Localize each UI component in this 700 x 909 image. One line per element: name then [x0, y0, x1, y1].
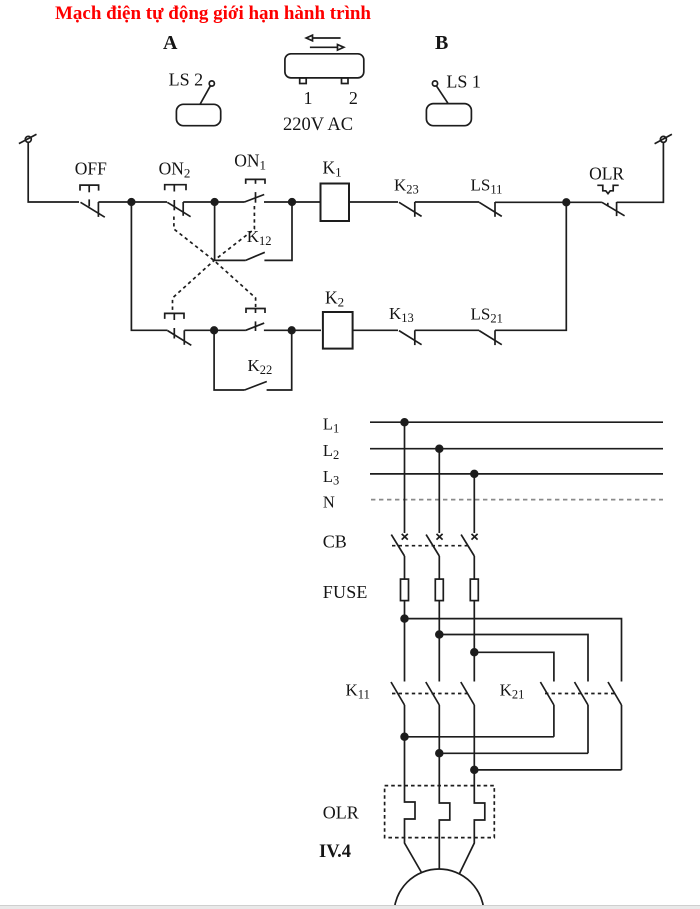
mech link ON2 to rung2 NO contact (dashed): [174, 217, 256, 308]
contact K12 blade (NO): [246, 252, 265, 260]
carriage foot terminal 1: [300, 78, 307, 84]
pushbutton OFF (NC) label: [75, 159, 107, 179]
wire fuse2 down to K11 pole2: [438, 601, 440, 682]
node L1 tap: [401, 419, 408, 426]
wire left rail down to rung2: [131, 202, 167, 330]
carriage foot terminal 2: [342, 78, 349, 84]
overload contact OLR label: [589, 163, 624, 183]
contactor K21 pole 3 blade: [608, 682, 622, 770]
fuse F1: [401, 579, 409, 601]
wire fuse3 down to K11 pole3: [473, 601, 475, 682]
breaker CB pole 3: [461, 534, 478, 579]
pushbutton ON1 cap: [246, 179, 265, 202]
contact K22 blade (NO): [245, 382, 267, 391]
pushbutton rung2 first contact blade: [168, 331, 192, 346]
svg-text:CB: CB: [323, 532, 347, 552]
left supply terminal: [19, 134, 37, 143]
phase line L2: [370, 448, 663, 450]
junction node rung1 far right: [563, 199, 570, 206]
limit switch LS1 roller: [432, 81, 437, 86]
neutral label N: [323, 493, 335, 512]
limit switch LS1 lever: [437, 86, 448, 103]
wire L3 tap down to CB: [473, 474, 475, 533]
svg-text:OLR: OLR: [323, 803, 359, 823]
svg-text:OLR: OLR: [589, 163, 624, 183]
overload OLR contact blade: [602, 202, 625, 216]
svg-text:ON2: ON2: [159, 159, 191, 181]
pushbutton OFF contact blade: [81, 202, 105, 217]
junction node rung1 left: [128, 199, 135, 206]
wire K12 up to rung1: [264, 202, 292, 260]
svg-text:K23: K23: [394, 176, 419, 197]
contact K13 NC terminal drop: [414, 330, 416, 345]
contact LS21 (NC) label: [471, 305, 503, 326]
overload heater element 3: [460, 770, 485, 874]
neutral line N (dashed): [371, 499, 663, 501]
fuse F2: [435, 579, 443, 601]
svg-text:K22: K22: [248, 356, 273, 377]
terminal label 2: [349, 88, 358, 108]
svg-text:K11: K11: [346, 681, 370, 702]
limit switch LS2 lever: [200, 86, 210, 104]
auxiliary contact K22 label: [248, 356, 273, 377]
wire node rung1 mid down to K12: [215, 202, 246, 260]
limit switch LS2 body: [176, 104, 220, 125]
limit switch LS1 body: [426, 104, 471, 126]
pushbutton ON2 cap: [165, 185, 186, 211]
svg-text:N: N: [323, 493, 335, 512]
breaker CB pole 2: [426, 534, 443, 579]
wire K1 to K23: [349, 201, 398, 203]
phase label L1: [323, 415, 339, 436]
svg-text:LS11: LS11: [471, 176, 503, 197]
svg-text:IV.4: IV.4: [319, 842, 351, 862]
wire LS11 to OLR (node at 566.3): [495, 201, 602, 203]
pushbutton ON2 NC terminal drop: [182, 202, 184, 216]
svg-text:2: 2: [349, 88, 358, 108]
svg-text:K1: K1: [323, 158, 342, 180]
pushbutton rung2 first NC terminal drop: [183, 330, 185, 345]
wire OFF to ON2 (node at 131): [98, 201, 167, 203]
pushbutton ON1 contact blade: [245, 195, 265, 203]
coil K2 label: [325, 288, 344, 310]
svg-text:1: 1: [304, 88, 313, 108]
svg-text:L3: L3: [323, 467, 339, 488]
phase label L2: [323, 441, 339, 462]
svg-text:OFF: OFF: [75, 159, 107, 179]
breaker CB pole 1: [391, 534, 408, 579]
contactor K21 linkage (dashed): [545, 693, 616, 695]
node L2 tap: [436, 445, 443, 452]
overload OLR NC terminal drop: [616, 202, 618, 216]
wire rung2 node left down to K22: [214, 330, 245, 390]
wire branch L2 to K21 pole2: [439, 635, 588, 682]
mech link ON1 to rung2 NC contact (dashed): [173, 206, 255, 312]
wire K22 up to rung2: [267, 330, 292, 390]
svg-text:K21: K21: [500, 681, 525, 702]
wire K23 to LS11: [415, 201, 479, 203]
pushbutton ON1 (NO) label: [234, 151, 266, 173]
contact LS21 blade: [479, 331, 502, 345]
wire rung2 to K2 coil (node at 291.7): [264, 329, 321, 331]
wire to rung2 node left: [184, 329, 245, 331]
phase label L3: [323, 467, 339, 488]
contact K13 (NC) label: [389, 304, 414, 325]
limit switch LS1 label: [446, 71, 481, 91]
contact LS11 blade: [479, 202, 502, 216]
wire branch L1 to K21 pole3: [405, 619, 622, 682]
contactor K11 label: [346, 681, 370, 702]
actuator travel arrow right: [310, 45, 344, 51]
node motor line3 join: [471, 767, 478, 774]
terminal label 1: [304, 88, 313, 108]
svg-text:LS 2: LS 2: [169, 70, 204, 90]
svg-text:A: A: [163, 32, 178, 54]
wire K21 pole1 bottom to line1: [405, 736, 554, 738]
coil K1 label: [323, 158, 342, 180]
wire OLR to right rail: [617, 142, 664, 202]
overload heater element 2: [439, 753, 450, 869]
node motor line1 join: [401, 733, 408, 740]
node fuse1 branch: [401, 615, 408, 622]
svg-text:K12: K12: [247, 227, 272, 248]
junction node rung1 right: [289, 199, 296, 206]
wire K21 pole2 bottom to line2: [439, 752, 588, 754]
wire fuse1 down to K11 pole1 (node, branch to K21 pole3): [404, 601, 406, 682]
svg-text:FUSE: FUSE: [323, 582, 368, 602]
wire branch L3 to K21 pole1: [474, 652, 554, 681]
figure label IV.4: [319, 842, 351, 862]
junction node rung1 mid: [211, 199, 218, 206]
wire K2 to K13: [353, 329, 398, 331]
junction node rung2 right: [288, 327, 295, 334]
overload relay OLR label: [323, 803, 359, 823]
junction node rung2 left: [211, 327, 218, 334]
actuator body (moving carriage): [285, 54, 364, 78]
breaker CB linkage (dashed): [392, 545, 470, 547]
overload OLR trip symbol: [597, 185, 618, 193]
pushbutton rung2 first (ON1 linked, NC) cap: [165, 313, 184, 338]
supply label 220V AC: [283, 115, 353, 135]
coil K1: [321, 184, 350, 222]
motor body circle: [394, 869, 484, 909]
wire K21 pole3 bottom to line3: [474, 769, 621, 771]
svg-text:LS 1: LS 1: [446, 71, 481, 91]
pushbutton OFF NC terminal drop: [97, 202, 99, 217]
wire LS21 to right vertical up to rung1: [495, 202, 566, 330]
svg-text:Mạch điện tự động giới hạn hàn: Mạch điện tự động giới hạn hành trình: [55, 3, 371, 24]
page bottom edge strip: [0, 905, 700, 909]
pushbutton rung2 second (ON2 linked, NO) cap: [246, 309, 265, 332]
actuator travel arrow left: [306, 35, 340, 41]
wire L2 tap down to CB: [438, 449, 440, 533]
overload heater element 1: [405, 737, 422, 873]
svg-text:K2: K2: [325, 288, 344, 310]
contactor K21 label: [500, 681, 525, 702]
svg-text:ON1: ON1: [234, 151, 266, 173]
contact K23 NC terminal drop: [414, 202, 416, 217]
limit switch LS2 label: [169, 70, 204, 90]
phase line L3: [370, 473, 663, 475]
pushbutton ON2 (NC) label: [159, 159, 191, 181]
node fuse2 branch: [436, 631, 443, 638]
contactor K11 pole 3 blade: [461, 682, 475, 770]
contact LS21 NC terminal drop: [494, 330, 496, 345]
contactor K11 pole 1 blade: [391, 682, 405, 737]
contact K23 blade: [399, 202, 422, 216]
fuse label FUSE: [323, 582, 368, 602]
contactor K11 pole 2 blade: [426, 682, 440, 753]
limit switch LS2 roller: [209, 81, 214, 86]
contactor K21 pole 2 blade: [575, 682, 589, 753]
svg-text:L1: L1: [323, 415, 339, 436]
node motor line2 join: [436, 750, 443, 757]
pushbutton OFF cap: [80, 185, 99, 206]
svg-text:L2: L2: [323, 441, 339, 462]
wire left rail to OFF: [28, 142, 79, 202]
auxiliary contact K12 label: [247, 227, 272, 248]
wire K13 to LS21: [415, 329, 479, 331]
contactor K11 linkage (dashed): [392, 693, 470, 695]
contact K13 blade: [399, 331, 422, 345]
contact LS11 NC terminal drop: [494, 202, 496, 217]
title "Mach dien tu dong gioi han hanh trinh": [55, 3, 371, 24]
pushbutton ON2 contact blade: [167, 202, 190, 216]
svg-text:LS21: LS21: [471, 305, 503, 326]
wire L1 tap down to CB: [404, 422, 406, 533]
coil K2: [323, 312, 353, 349]
node fuse3 branch: [471, 649, 478, 656]
svg-text:220V AC: 220V AC: [283, 115, 353, 135]
contact K23 (NC) label: [394, 176, 419, 197]
node L3 tap: [471, 471, 478, 478]
contact LS11 (NC) label: [471, 176, 503, 197]
pushbutton rung2 second contact blade: [245, 323, 264, 330]
phase line L1: [370, 421, 663, 423]
breaker label CB: [323, 532, 347, 552]
svg-text:B: B: [435, 32, 448, 54]
right supply terminal: [655, 134, 672, 144]
fuse F3: [470, 579, 478, 601]
wire ON1 to K1 coil (node at 292): [264, 201, 321, 203]
svg-text:K13: K13: [389, 304, 414, 325]
wire ON2 to ON1 (node at 214.6): [183, 201, 244, 203]
node A label: [163, 32, 178, 54]
contactor K21 pole 1 blade: [540, 682, 554, 737]
overload relay box (dashed): [385, 786, 495, 838]
node B label: [435, 32, 448, 54]
